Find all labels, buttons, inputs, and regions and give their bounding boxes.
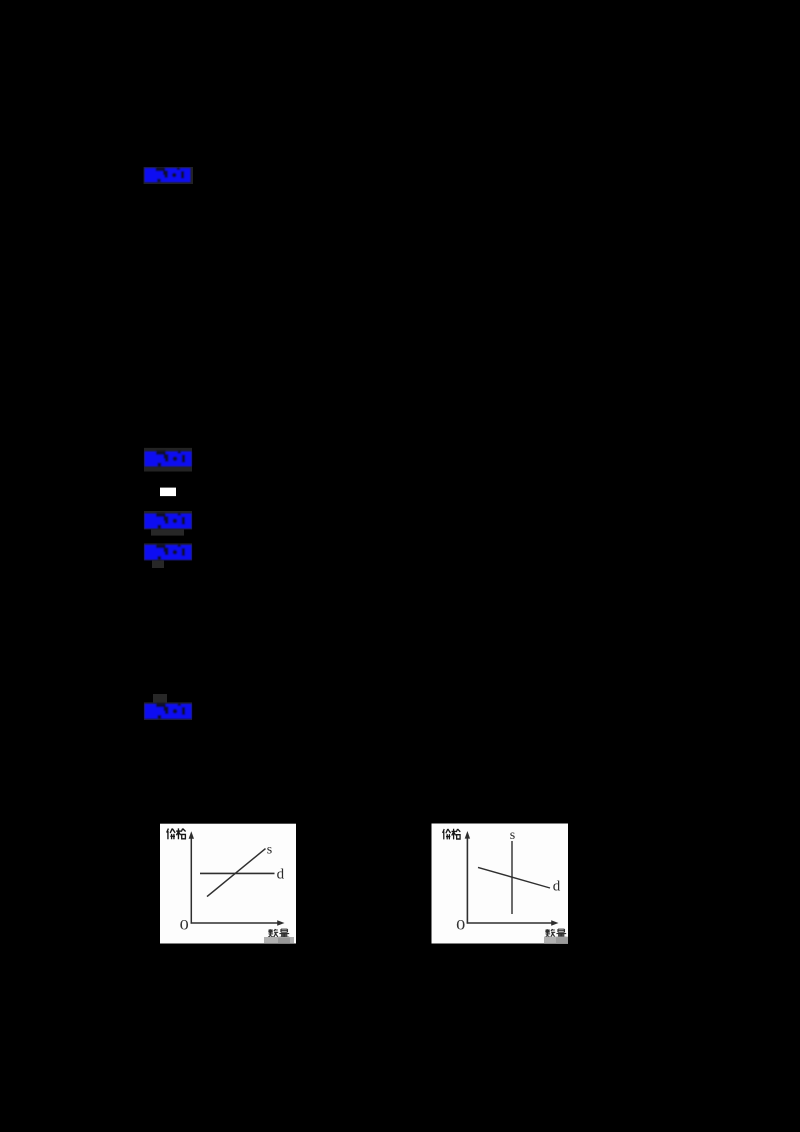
white answer rectangle	[160, 488, 176, 497]
figure 1 y-axis with arrowhead	[189, 831, 194, 923]
explanation label [jie-xi] block 4	[145, 544, 192, 560]
label highlight background 1	[144, 167, 193, 184]
analysis label [fen-xi] block 3	[145, 513, 192, 529]
figure 2 quantity label (shu-liang)	[545, 929, 566, 937]
figure 2 supply line s (vertical)	[511, 841, 513, 914]
dark highlight notch above block 5	[153, 694, 167, 703]
label highlight background 4	[144, 543, 192, 560]
dark highlight notch under block 3	[151, 529, 184, 535]
label highlight background 5	[144, 702, 192, 720]
figure 1 supply line s (ascending)	[207, 849, 266, 897]
figure 2 y-axis with arrowhead	[465, 831, 470, 924]
svg-text:d: d	[277, 867, 285, 883]
figure 1 quantity label (shu-liang)	[268, 929, 289, 937]
figure 1 gray smudge under quantity label	[264, 937, 294, 944]
figure 2 demand line d (descending)	[478, 867, 550, 888]
svg-text:0: 0	[180, 916, 189, 933]
label highlight background 2	[144, 448, 192, 472]
svg-text:s: s	[267, 843, 272, 858]
answer label [da-an] block 2	[145, 451, 192, 467]
svg-text:0: 0	[456, 916, 465, 933]
label highlight background 3	[144, 511, 192, 529]
dark highlight notch under block 4	[152, 560, 164, 568]
figure 2 x-axis with arrowhead	[467, 920, 559, 925]
figure 2 price label (jia-ge)	[443, 829, 461, 840]
figure 1 price label (jia-ge)	[167, 828, 186, 839]
figure 1: supply-demand chart, white panel	[160, 824, 296, 944]
svg-text:s: s	[510, 828, 515, 843]
answer label [da-an] block 1	[145, 168, 191, 183]
figure 2 gray smudge under quantity label	[544, 937, 568, 944]
figure 1 demand line d (horizontal)	[200, 872, 275, 874]
answer label [da-an] block 5	[145, 703, 192, 719]
figure 2: supply-demand chart, white panel	[432, 824, 569, 944]
figure 1 x-axis with arrowhead	[191, 920, 285, 925]
svg-text:d: d	[553, 879, 561, 895]
